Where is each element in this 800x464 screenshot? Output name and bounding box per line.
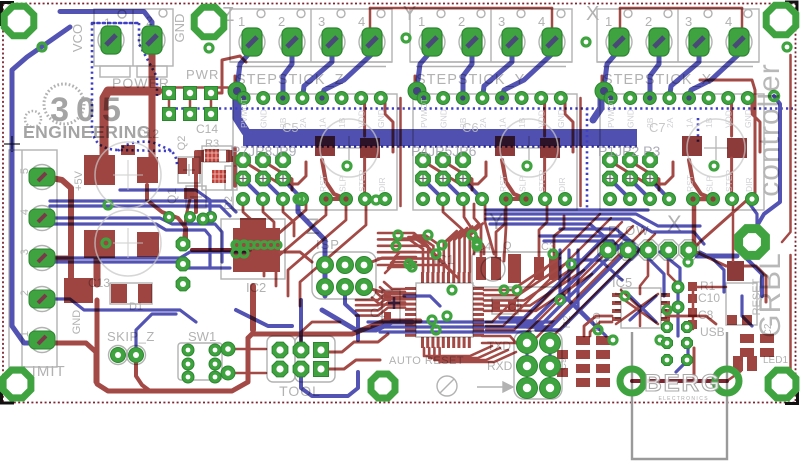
connector FLOW outlines	[598, 240, 618, 260]
svg-text:PWR: PWR	[186, 67, 219, 82]
led1 pads	[733, 356, 743, 371]
wire serial blues	[525, 350, 528, 360]
wire pwr top rail	[163, 86, 228, 89]
svg-text:RST: RST	[318, 175, 328, 192]
svg-text:1: 1	[418, 14, 425, 29]
svg-text:VDD: VDD	[537, 110, 547, 128]
wire ic5 cross	[628, 294, 656, 322]
svg-text:DIR: DIR	[744, 177, 754, 192]
wire crystal feeds	[474, 204, 481, 256]
connector TOOL pads	[272, 342, 288, 358]
wire blue staircase to MCU	[500, 238, 604, 318]
wire nest fan B	[443, 199, 474, 254]
svg-text:C10: C10	[698, 291, 720, 305]
wire flow to ic5 reds	[640, 258, 648, 294]
wire center diag 1	[236, 310, 292, 326]
wire right lower blues	[660, 252, 680, 290]
stepper Z header pads	[236, 153, 251, 168]
blue band power bus	[237, 88, 246, 132]
svg-text:2A: 2A	[665, 117, 675, 128]
dotted vertical X module	[697, 118, 700, 142]
dotted power outline 2	[92, 23, 172, 151]
dotted C12 outline	[118, 142, 177, 166]
svg-text:2A: 2A	[478, 117, 488, 128]
wire skip blue	[136, 314, 176, 348]
regulator IC2 outline	[221, 219, 285, 279]
svg-text:2: 2	[458, 14, 465, 29]
stepper Y terminal pads	[422, 28, 442, 56]
stepper Y header pads	[416, 153, 431, 168]
wire nest left risers	[394, 252, 416, 258]
svg-text:3: 3	[318, 14, 325, 29]
origin cross	[4, 136, 20, 152]
svg-text:P4JP5JP6: P4JP5JP6	[411, 143, 477, 159]
mounting hole pad M4 bottom-right	[768, 370, 796, 398]
mounting hole H4	[437, 376, 457, 396]
stepper module X silkscreen	[597, 9, 764, 210]
connector SERIAL pads	[517, 333, 538, 354]
wire limit bus 6	[48, 252, 248, 258]
POWER pin1 circle	[118, 10, 126, 18]
svg-text:RST: RST	[685, 175, 695, 192]
stepper X bottom pad row	[604, 193, 617, 206]
svg-text:BERG: BERG	[644, 370, 721, 397]
wire under MCU 2	[372, 325, 544, 328]
wire limit bus 2	[50, 201, 236, 212]
svg-text:PVMOT: PVMOT	[606, 98, 616, 128]
diode D2 pads hatched	[205, 149, 219, 162]
microcontroller IC1 outline	[416, 283, 473, 337]
wire right edge reset	[742, 296, 752, 326]
wire limit pad1 thick	[46, 177, 71, 284]
pads aux row y217	[164, 212, 175, 223]
wire blue flow exit	[700, 252, 724, 292]
mounting hole pad M7 top-z	[194, 7, 224, 37]
stepper Y bottom pad row	[417, 193, 430, 206]
wire between modules 1	[399, 98, 402, 206]
diode D2 outline	[202, 146, 232, 190]
wire mcu left blue	[404, 296, 440, 306]
wire right bus 1	[486, 214, 700, 226]
capacitor C13 outline overlay	[95, 210, 161, 276]
wire nest fan C red staircase	[486, 214, 600, 322]
svg-text:R3: R3	[205, 138, 219, 150]
wire mcu right fan	[484, 258, 560, 290]
wire right bus 2	[486, 219, 704, 244]
wire right edge	[782, 55, 791, 242]
wire pre-crystal bundle	[378, 233, 428, 246]
svg-text:2A: 2A	[298, 117, 308, 128]
wires stepper Y red verticals	[543, 97, 546, 136]
wire ISP thick vertical	[298, 199, 325, 296]
wire flow feed thick	[692, 199, 697, 246]
svg-text:2: 2	[278, 14, 285, 29]
smd group right	[740, 334, 754, 343]
switch SW1 outline	[178, 343, 222, 380]
connector ISP outline	[312, 252, 376, 299]
capacitor C2 outline	[492, 298, 518, 314]
connector TOOL outline	[267, 336, 295, 382]
wire C12 to Q1	[147, 185, 186, 240]
wire c8 vertical	[676, 290, 679, 336]
wires stepper X red diagonals	[610, 161, 673, 184]
connector LIMIT block outline	[9, 150, 57, 367]
wires stepper Z red diagonals	[243, 161, 306, 184]
mounting hole pad M1 top-left	[4, 6, 34, 36]
wire serial to mcu	[482, 342, 516, 345]
wire right edge blue loop	[757, 96, 780, 226]
svg-text:STEP: STEP	[724, 169, 734, 192]
wire ISP 2	[345, 292, 358, 340]
wire right bus 4	[544, 241, 630, 256]
stepper Y vmot pad	[408, 82, 426, 100]
wire between modules 2	[579, 98, 582, 206]
wire tool bottom	[301, 372, 358, 396]
svg-text:STEP: STEP	[537, 169, 547, 192]
svg-text:P7JP8JP9: P7JP8JP9	[231, 143, 297, 159]
svg-text:GND: GND	[626, 109, 636, 128]
wire reset blue	[570, 260, 622, 280]
POWER pin2 circle	[159, 9, 167, 17]
connector LIMIT pads	[29, 168, 55, 186]
reset button SW2 outline	[726, 283, 757, 325]
stepper module Y silkscreen	[410, 9, 577, 210]
wires stepper Y red diagonals	[423, 161, 486, 184]
svg-text:4: 4	[538, 14, 545, 29]
diode D1 outline	[110, 283, 152, 304]
wire D1 to bottom rail	[97, 300, 248, 391]
mounting hole pad M5 right-middle	[739, 229, 766, 256]
svg-text:C6: C6	[462, 120, 479, 135]
svg-text:SKIP_Z: SKIP_Z	[107, 329, 155, 344]
svg-text:4: 4	[358, 14, 365, 29]
svg-text:3: 3	[685, 14, 692, 29]
capacitor C2 pads	[492, 300, 500, 312]
transistor Q1 pads	[178, 158, 187, 174]
wire tool reds	[321, 334, 388, 352]
wire pwr to module	[216, 56, 246, 93]
transistor Q1 outline	[178, 157, 200, 183]
svg-text:3: 3	[498, 14, 505, 29]
wire limit bus 3	[50, 206, 230, 216]
wire limit bus 5	[48, 224, 210, 268]
wire nest mcu-left bundle	[356, 292, 405, 300]
wire sw1 pads red	[222, 348, 266, 351]
svg-text:C14: C14	[196, 122, 218, 136]
svg-text:+5V: +5V	[73, 170, 85, 191]
svg-text:1A: 1A	[684, 117, 694, 128]
connector POWER block outline	[94, 9, 173, 66]
stepper Z trimpot pads	[315, 136, 335, 156]
reset pads	[727, 261, 744, 281]
svg-text:E L E C T R O N I C S: E L E C T R O N I C S	[658, 396, 708, 402]
svg-text:1A: 1A	[317, 117, 327, 128]
wire q2 c14 verticals	[194, 152, 198, 212]
LIMIT pad ring 2	[30, 287, 55, 312]
pads R1/C10	[672, 281, 684, 293]
svg-text:VDD: VDD	[357, 110, 367, 128]
crystal pads C4 Q C3	[476, 257, 486, 280]
svg-text:USB: USB	[700, 325, 725, 339]
wire stepper Y circle feed	[502, 160, 526, 199]
vias	[38, 43, 46, 51]
svg-text:GND: GND	[743, 109, 753, 128]
pads USB jumpers	[662, 338, 673, 349]
wire usb to led	[693, 348, 696, 378]
stepper Y trimpot pads	[495, 136, 515, 156]
svg-text:VDD: VDD	[724, 110, 734, 128]
wire bottom rail to tool	[248, 321, 420, 338]
wire ic2 down	[250, 286, 256, 330]
wire left edge +5V bus	[12, 27, 70, 343]
svg-text:PVMOT: PVMOT	[239, 98, 249, 128]
ic2 via row	[234, 242, 241, 249]
svg-text:GND: GND	[376, 109, 386, 128]
LIMIT pad ring 3	[30, 246, 55, 271]
wire power VCC thick	[149, 40, 156, 158]
svg-text:4: 4	[725, 14, 732, 29]
wire blue verticals right of band	[560, 250, 588, 320]
svg-text:RST: RST	[498, 175, 508, 192]
wire limit bus 7	[48, 262, 230, 268]
wire x pad down blue	[749, 203, 757, 226]
dotted band bottom	[246, 145, 637, 148]
wire limit bus 1	[120, 190, 210, 213]
wire c1 blue cross	[388, 297, 400, 309]
capacitor C1 pads	[384, 292, 391, 301]
ic2 body copper	[233, 228, 280, 272]
SKIP_Z pad rings	[109, 346, 128, 365]
connector SKIP_Z pads	[111, 348, 126, 363]
svg-text:SW1: SW1	[188, 329, 216, 344]
d1 blob	[64, 278, 93, 303]
wire top rail ZY	[370, 7, 552, 10]
svg-text:PVMOT: PVMOT	[419, 98, 429, 128]
connector PWR pads	[163, 87, 176, 100]
wire skip pad	[136, 358, 150, 391]
usb connector outline	[632, 332, 727, 459]
svg-text:STEP: STEP	[357, 169, 367, 192]
wire c9 pads	[557, 350, 568, 359]
wire ic5 to smd red	[584, 316, 612, 336]
stepper X top pad row	[604, 92, 617, 105]
svg-text:GRBL: GRBL	[754, 252, 787, 338]
corner mark top-left	[2, 3, 15, 27]
wire c13 down to D1	[94, 258, 101, 284]
svg-text:C5: C5	[282, 120, 299, 135]
wire limit pad5 bottom	[44, 343, 96, 382]
stepper Z bottom pad row	[237, 193, 250, 206]
svg-text:C7: C7	[649, 120, 666, 135]
wire ic2 right	[280, 252, 312, 262]
wire q1 to pads	[184, 199, 190, 236]
connector ISP pads	[317, 257, 334, 274]
wire reset up	[732, 200, 735, 261]
svg-text:GND: GND	[439, 109, 449, 128]
capacitor C14 outline	[225, 166, 237, 190]
wire X module vmot	[593, 92, 601, 120]
stepper X vmot pad	[595, 82, 613, 100]
stepper X terminal pads	[609, 28, 629, 56]
svg-text:IC2: IC2	[246, 280, 266, 295]
wire limit bus 8	[48, 299, 196, 322]
svg-text:SLP: SLP	[705, 176, 715, 192]
stepper Z top pad row	[237, 92, 250, 105]
svg-text:GND: GND	[172, 14, 187, 43]
svg-text:2: 2	[645, 14, 652, 29]
dotted power outline 3	[139, 23, 157, 96]
wire flow right	[697, 254, 737, 259]
connector SERIAL outline	[514, 331, 562, 399]
305 engineering gear logo	[44, 84, 84, 124]
wire limit bus 4	[48, 218, 222, 262]
stepper Z trimpot via	[343, 162, 351, 170]
stepper Y trimpot via	[523, 162, 531, 170]
wires stepper Y terminal routing	[418, 50, 432, 80]
wire top rail X	[620, 7, 742, 10]
pads JP aux	[221, 342, 235, 356]
wires stepper X red verticals	[730, 97, 733, 136]
wire stepper Y top left	[415, 76, 424, 98]
mounting hole pad M6 bottom-middle octagon	[371, 374, 395, 398]
silkscreen overlay text	[95, 98, 754, 402]
svg-text:1: 1	[238, 14, 245, 29]
usb shield pad right	[715, 369, 739, 393]
usb shield pad left	[620, 369, 644, 393]
wire right top rail	[696, 80, 755, 246]
wire tool vertical	[299, 300, 303, 342]
dotted bus line	[165, 107, 793, 110]
stepper Y top pad row	[417, 92, 430, 105]
svg-text:1A: 1A	[497, 117, 507, 128]
wire stepper Z circle feed	[322, 160, 346, 199]
connector FLOW pads	[600, 242, 616, 258]
wire isp reds	[364, 258, 398, 265]
dotted power outline 1	[92, 22, 139, 25]
wire stepper X top left	[602, 76, 611, 98]
wire nest fan A	[264, 199, 306, 276]
silkscreen arrow	[477, 382, 513, 392]
wire mount rail maroon	[632, 379, 727, 383]
trimpot RX cross	[704, 136, 728, 160]
smd resistors bottom left group	[576, 336, 590, 345]
svg-text:SLP: SLP	[338, 176, 348, 192]
wire q1 bus maroon	[192, 248, 250, 252]
LIMIT pad ring 5	[30, 165, 55, 190]
svg-text:ENGINEERING: ENGINEERING	[23, 122, 151, 142]
capacitor C13 pads	[84, 230, 115, 258]
wire mcu left fan	[384, 282, 405, 289]
wires stepper X header diagonals	[610, 179, 630, 199]
POWER pad ring 1	[98, 27, 124, 53]
wire nest fan A2	[243, 199, 254, 236]
mounting hole pad M3 bottom-left	[3, 370, 31, 398]
trimpot RY cross	[517, 136, 541, 160]
stepper X trimpot via	[710, 162, 718, 170]
svg-text:SLP: SLP	[518, 176, 528, 192]
wires stepper X terminal routing	[605, 50, 619, 80]
svg-text:VCO: VCO	[70, 24, 85, 52]
resistor R3 outline	[203, 150, 229, 162]
corner mark bottom-right	[785, 380, 798, 404]
wire under MCU 1	[368, 320, 556, 323]
svg-text:Q2: Q2	[176, 136, 188, 151]
POWER pad ring 2	[139, 27, 165, 53]
mounting hole pad M2 top-right	[766, 5, 796, 35]
wire power GND thick	[104, 91, 158, 160]
wire right bus 3	[540, 236, 640, 250]
capacitor C12 pads	[84, 155, 115, 185]
svg-text:C12: C12	[137, 127, 159, 141]
r1 c10 c8 pads	[688, 282, 697, 291]
wires stepper Y header diagonals	[423, 179, 443, 199]
wire under MCU 3	[380, 330, 530, 333]
svg-text:1: 1	[605, 14, 612, 29]
wire pwr jumpers	[168, 98, 171, 110]
wire center diag 2	[322, 310, 412, 330]
power terminal pads	[101, 26, 121, 54]
stepper X trimpot pads	[682, 136, 702, 156]
svg-text:GND: GND	[71, 310, 83, 335]
wire tool third red	[301, 322, 340, 346]
ic5 pins	[612, 293, 621, 297]
switch SW1 pads	[182, 344, 194, 356]
wire stepper Z top left	[235, 76, 244, 98]
corner mark bottom-left	[2, 380, 15, 403]
stepper Z vmot pad	[228, 82, 246, 100]
pads Q1 area	[176, 237, 190, 251]
wire limit pad3	[46, 256, 71, 261]
svg-text:DIR: DIR	[557, 177, 567, 192]
wires stepper Z header diagonals	[243, 179, 263, 199]
svg-text:GND: GND	[556, 109, 566, 128]
dotted vertical between Y and X	[586, 108, 589, 208]
wire ic5 cross red	[616, 294, 658, 324]
wire mcu top fan	[422, 249, 425, 272]
stepper module Z silkscreen	[230, 9, 397, 210]
ic IC5 outline	[621, 288, 661, 328]
wires stepper Z terminal routing	[238, 50, 252, 80]
wires stepper Z red verticals	[363, 97, 366, 136]
wire stepper X circle feed	[689, 160, 713, 199]
wire usb blue	[676, 345, 688, 372]
mcu pins	[405, 287, 416, 290]
wire top-left to power	[60, 12, 152, 35]
capacitor C12 outline overlay	[95, 119, 745, 276]
resistor R3 pads	[197, 150, 204, 162]
wire mcu bottom fan	[424, 346, 492, 356]
svg-text:GND: GND	[259, 109, 269, 128]
corner mark top-right	[785, 2, 797, 26]
capacitor C1 outline	[382, 290, 400, 322]
stepper X header pads	[603, 153, 618, 168]
trimpot circles overlay	[320, 119, 378, 177]
LIMIT pad ring 4	[30, 206, 55, 231]
crystal Q2 outline	[472, 252, 560, 287]
wire blue right horiz extra	[486, 208, 648, 211]
stepper Z terminal pads	[242, 28, 262, 56]
svg-text:DIR: DIR	[377, 177, 387, 192]
wire r1 trace	[697, 286, 726, 289]
wire flow diag	[692, 250, 766, 302]
top copper layer (red)	[44, 8, 791, 391]
LIMIT pad ring 1	[30, 328, 55, 353]
trimpot RZ cross	[337, 136, 361, 160]
svg-text:P1JP2 P3: P1JP2 P3	[598, 143, 660, 159]
